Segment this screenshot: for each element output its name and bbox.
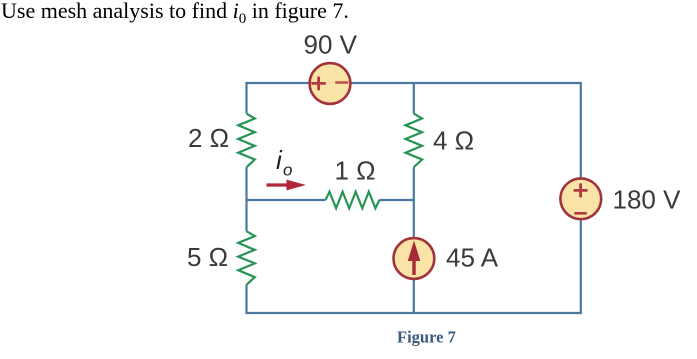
45A arrow (upward) bbox=[412, 258, 415, 275]
resistor R=4ohm zigzag bbox=[406, 114, 423, 168]
svg-text:Use mesh analysis to find i0 i: Use mesh analysis to find i0 in figure 7… bbox=[1, 0, 349, 27]
voltage source 180V circle bbox=[560, 178, 601, 219]
current source 45A circle bbox=[394, 238, 435, 279]
wire: top horizontal (node from left corner to right corner) bbox=[247, 82, 581, 84]
svg-text:o: o bbox=[283, 161, 292, 180]
resistor R=2ohm zigzag bbox=[238, 114, 255, 168]
wire: middle horizontal right segment bbox=[379, 199, 413, 201]
wire: middle horizontal left segment (node with i_o current) bbox=[247, 199, 326, 201]
resistor R=1ohm zigzag bbox=[326, 192, 380, 209]
wire: left vertical middle segment bbox=[245, 167, 247, 231]
180V plus symbol bbox=[574, 183, 588, 197]
voltage source 90V circle bbox=[310, 63, 351, 104]
resistor R=5ohm zigzag bbox=[238, 231, 255, 285]
wire: left vertical bottom segment bbox=[245, 285, 247, 314]
svg-text:45 A: 45 A bbox=[446, 243, 499, 273]
svg-text:2 Ω: 2 Ω bbox=[188, 123, 229, 153]
90V minus symbol bbox=[335, 81, 348, 84]
90V plus symbol bbox=[311, 77, 325, 91]
svg-text:Figure 7: Figure 7 bbox=[397, 328, 456, 347]
wire: left vertical upper segment bbox=[245, 82, 247, 114]
wire: middle vertical upper segment bbox=[413, 83, 415, 114]
wire: right vertical bbox=[580, 82, 582, 314]
svg-text:180 V: 180 V bbox=[613, 185, 682, 215]
svg-text:i: i bbox=[276, 145, 283, 175]
wire: middle vertical lower segment bbox=[413, 167, 415, 313]
180V minus symbol bbox=[574, 212, 587, 215]
svg-text:1 Ω: 1 Ω bbox=[335, 156, 376, 186]
svg-text:90 V: 90 V bbox=[304, 30, 358, 60]
wire: bottom horizontal bbox=[247, 312, 581, 314]
svg-text:5 Ω: 5 Ω bbox=[187, 242, 228, 272]
current arrow i_o (pointing right) bbox=[267, 183, 291, 186]
svg-text:4 Ω: 4 Ω bbox=[433, 126, 474, 156]
